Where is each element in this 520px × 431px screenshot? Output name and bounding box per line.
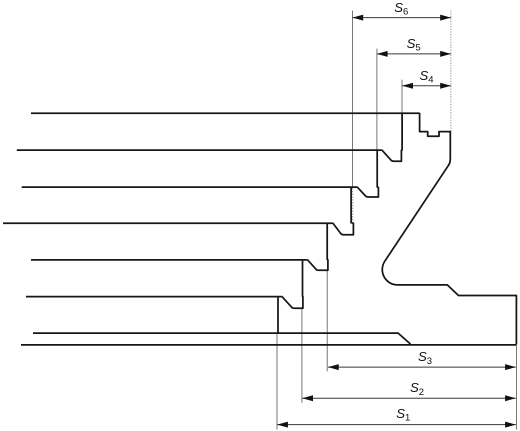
extension line S6 continuation (faint) (352, 188, 354, 222)
arrow S5 left (377, 51, 388, 57)
arrow S4 right (440, 83, 451, 89)
step edge from line 6 down to line 7 (277, 296, 279, 333)
pocket 4 (chamfer, floor, wall up to line 3) (333, 187, 354, 235)
dimension line S4 (402, 85, 451, 87)
sheet line 6 (stage 6 surface) (26, 296, 282, 298)
sheet line 7 (stage 7 surface) with chamfer to base (33, 333, 410, 344)
svg-text:S1: S1 (396, 406, 410, 424)
arrow S2 right (505, 395, 516, 401)
arrow S3 left (328, 364, 339, 370)
extension line right top (dotted) (450, 11, 452, 132)
arrow S2 left (302, 395, 313, 401)
pocket 6 (chamfer, floor, wall up to line 5) (282, 260, 303, 309)
dimension line S3 (328, 366, 516, 368)
extension line S4 left (401, 80, 403, 113)
pocket 3 (chamfer, floor, wall up to line 2) (357, 150, 378, 197)
sheet line 2 (stage 2 surface) (17, 149, 382, 151)
extension line S5 left (376, 49, 378, 150)
arrow S6 right (440, 15, 451, 21)
dimension line S5 (377, 53, 451, 55)
arrow S6 left (353, 15, 364, 21)
svg-text:S2: S2 (410, 380, 424, 398)
dimension line S2 (302, 397, 516, 399)
arrow S5 right (440, 51, 451, 57)
arrow S1 right (505, 422, 516, 428)
svg-text:S5: S5 (407, 36, 421, 54)
extension line right bottom (516, 346, 518, 430)
extension line S3 left (326, 270, 328, 371)
dimension line S6 (353, 17, 451, 19)
extension line S6 left (352, 11, 354, 187)
extension line S1 left (276, 333, 278, 430)
sheet line 1 (top surface, stage 1) (31, 112, 420, 114)
svg-text:S3: S3 (418, 349, 432, 367)
pocket 2 (chamfer, floor, wall up to line 1) (382, 113, 402, 161)
sheet line 4 (stage 4 surface) (3, 222, 333, 224)
svg-text:S6: S6 (394, 0, 408, 18)
pocket 5 (chamfer, floor, wall up to line 4) (307, 223, 328, 270)
extension line S2 left (301, 308, 303, 402)
right body outline: step edge, notch, right edge, taper, relief floor, foot (382, 113, 516, 345)
arrow S1 left (277, 422, 288, 428)
dimension line S1 (277, 424, 516, 426)
sheet line 5 (stage 5 surface) (31, 259, 307, 261)
arrow S4 left (402, 83, 413, 89)
svg-text:S4: S4 (420, 68, 434, 86)
base bottom line (21, 344, 516, 346)
arrow S3 right (505, 364, 516, 370)
sheet line 3 (stage 3 surface) (22, 186, 357, 188)
